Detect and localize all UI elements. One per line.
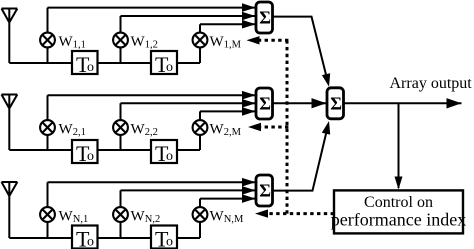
wire: summer U3 output to final summer (with corner and diagonal) xyxy=(273,128,328,191)
wire: row 2 signal line xyxy=(9,149,72,151)
wire: row 2 weighted-signal line tap 2 to summer xyxy=(121,102,256,104)
value label W1,M xyxy=(210,34,242,51)
svg-text:o: o xyxy=(87,234,94,249)
wire: row 3 tap 1 vertical xyxy=(47,182,49,238)
multiplier (weight) W1,M circle-X xyxy=(193,33,208,48)
wire: row 1 signal line after second delay xyxy=(177,62,200,64)
svg-text:Σ: Σ xyxy=(330,93,342,113)
svg-text:Control on: Control on xyxy=(364,194,433,211)
svg-text:Σ: Σ xyxy=(259,181,271,201)
summer U2 (sigma) row 2 xyxy=(256,88,273,119)
svg-text:W: W xyxy=(131,122,146,138)
wire: row 3 weighted-signal line tap 1 to summer xyxy=(48,181,256,183)
control block: Control on performance index xyxy=(331,190,466,233)
wire: summer U1 output to final summer (with corner and diagonal) xyxy=(273,17,328,80)
value label W1,1 xyxy=(59,34,86,51)
multiplier (weight) WN,M circle-X xyxy=(193,207,208,222)
wire: feedback tap from output line down to control box xyxy=(398,103,400,188)
antenna A2 xyxy=(2,95,18,151)
multiplier (weight) W1,2 circle-X xyxy=(113,33,128,48)
svg-text:o: o xyxy=(87,149,94,164)
svg-text:W: W xyxy=(131,34,146,50)
value label W1,2 xyxy=(131,34,158,51)
svg-text:o: o xyxy=(166,234,173,249)
svg-text:Σ: Σ xyxy=(259,8,271,28)
wire: row 2 tap 2 vertical xyxy=(120,103,122,150)
svg-text:2,2: 2,2 xyxy=(145,127,158,138)
arrowhead: dashed feedback into row 1 weights xyxy=(247,36,260,44)
wire: row 3 signal line between delay blocks xyxy=(98,237,152,239)
svg-text:performance index: performance index xyxy=(331,210,466,230)
delay block T0 (row 2, tap 1) xyxy=(72,140,98,166)
antenna A1 xyxy=(2,9,18,64)
wire: row 2 weighted-signal line tap 1 to summer xyxy=(48,94,256,96)
svg-text:1,M: 1,M xyxy=(224,40,242,51)
wire: row 1 tap 1 vertical xyxy=(47,8,49,63)
svg-text:1,1: 1,1 xyxy=(73,40,86,51)
wire: row 1 tap 3 vertical xyxy=(199,24,201,63)
wire: final summer output (array output line) xyxy=(344,102,462,104)
summer U1 (sigma) row 1 xyxy=(256,2,273,33)
value label WN,M xyxy=(210,209,245,226)
wire: row 1 tap 2 vertical xyxy=(120,16,122,63)
antenna A3 xyxy=(2,182,18,238)
svg-text:W: W xyxy=(131,209,146,225)
delay block T0 (row 3, tap 2) xyxy=(151,226,177,249)
multiplier (weight) W2,2 circle-X xyxy=(113,120,128,135)
wire: row 2 tap 1 vertical xyxy=(47,95,49,150)
wire: row 3 tap 3 vertical xyxy=(199,199,201,238)
value label W2,2 xyxy=(131,122,158,139)
wire: row 3 signal line after second delay xyxy=(177,237,200,239)
svg-text:N,2: N,2 xyxy=(145,214,160,225)
multiplier (weight) WN,1 circle-X xyxy=(40,207,55,222)
svg-text:N,1: N,1 xyxy=(73,214,88,225)
wire: row 2 signal line between delay blocks xyxy=(98,149,152,151)
summer U3 (sigma) row 3 xyxy=(256,175,273,206)
delay block T0 (row 1, tap 1) xyxy=(72,51,98,77)
value label WN,2 xyxy=(131,209,161,226)
value label WN,1 xyxy=(59,209,89,226)
multiplier (weight) W2,1 circle-X xyxy=(40,120,55,135)
multiplier (weight) W1,1 circle-X xyxy=(40,33,55,48)
wire: summer U2 output to final summer xyxy=(273,102,327,104)
multiplier (weight) W2,M circle-X xyxy=(193,120,208,135)
svg-text:W: W xyxy=(59,34,74,50)
multiplier (weight) WN,2 circle-X xyxy=(113,207,128,222)
wire: row 1 weighted-signal line tap 2 to summer xyxy=(121,15,256,17)
svg-text:o: o xyxy=(87,60,94,75)
svg-text:o: o xyxy=(166,60,173,75)
svg-text:Σ: Σ xyxy=(259,94,271,114)
svg-text:2,1: 2,1 xyxy=(73,127,86,138)
svg-text:N,M: N,M xyxy=(224,214,244,225)
wire: row 3 signal line xyxy=(9,237,72,239)
wire: row 2 signal line after second delay xyxy=(177,149,200,151)
arrowhead: dashed feedback into row 3 weights xyxy=(255,209,268,217)
wire: row 3 tap 2 vertical xyxy=(120,190,122,238)
svg-text:2,M: 2,M xyxy=(224,127,242,138)
svg-text:1,2: 1,2 xyxy=(145,40,158,51)
svg-text:o: o xyxy=(166,149,173,164)
value label W2,M xyxy=(210,122,242,139)
svg-text:Array output: Array output xyxy=(390,75,473,92)
wire: row 2 weighted-signal line tap 3 to summer xyxy=(200,110,256,112)
wire: row 3 weighted-signal line tap 3 to summer xyxy=(200,198,256,200)
wire: row 3 weighted-signal line tap 2 to summer xyxy=(121,189,256,191)
delay block T0 (row 3, tap 1) xyxy=(72,226,98,249)
svg-text:W: W xyxy=(210,34,225,50)
wire: dashed feedback line from control box (horizontal, row 3) xyxy=(267,212,334,215)
final summer U4 (sigma) xyxy=(327,88,344,119)
svg-text:W: W xyxy=(59,209,74,225)
value label W2,1 xyxy=(59,122,86,139)
wire: dashed feedback stub to row 2 weights xyxy=(261,126,288,129)
svg-text:W: W xyxy=(210,209,225,225)
delay block T0 (row 1, tap 2) xyxy=(151,51,177,77)
delay block T0 (row 2, tap 2) xyxy=(151,140,177,166)
wire: row 2 tap 3 vertical xyxy=(199,111,201,150)
wire: row 1 signal line xyxy=(9,62,72,64)
wire: dashed feedback vertical riser xyxy=(286,40,289,213)
wire: row 1 signal line between delay blocks xyxy=(98,62,152,64)
arrowhead: dashed feedback into row 2 weights xyxy=(248,123,261,131)
wire: dashed feedback stub to row 1 weights xyxy=(259,39,289,42)
wire: row 1 weighted-signal line tap 3 to summer xyxy=(200,23,256,25)
wire: row 1 weighted-signal line tap 1 to summer xyxy=(48,7,256,9)
svg-text:W: W xyxy=(210,122,225,138)
svg-text:W: W xyxy=(59,122,74,138)
